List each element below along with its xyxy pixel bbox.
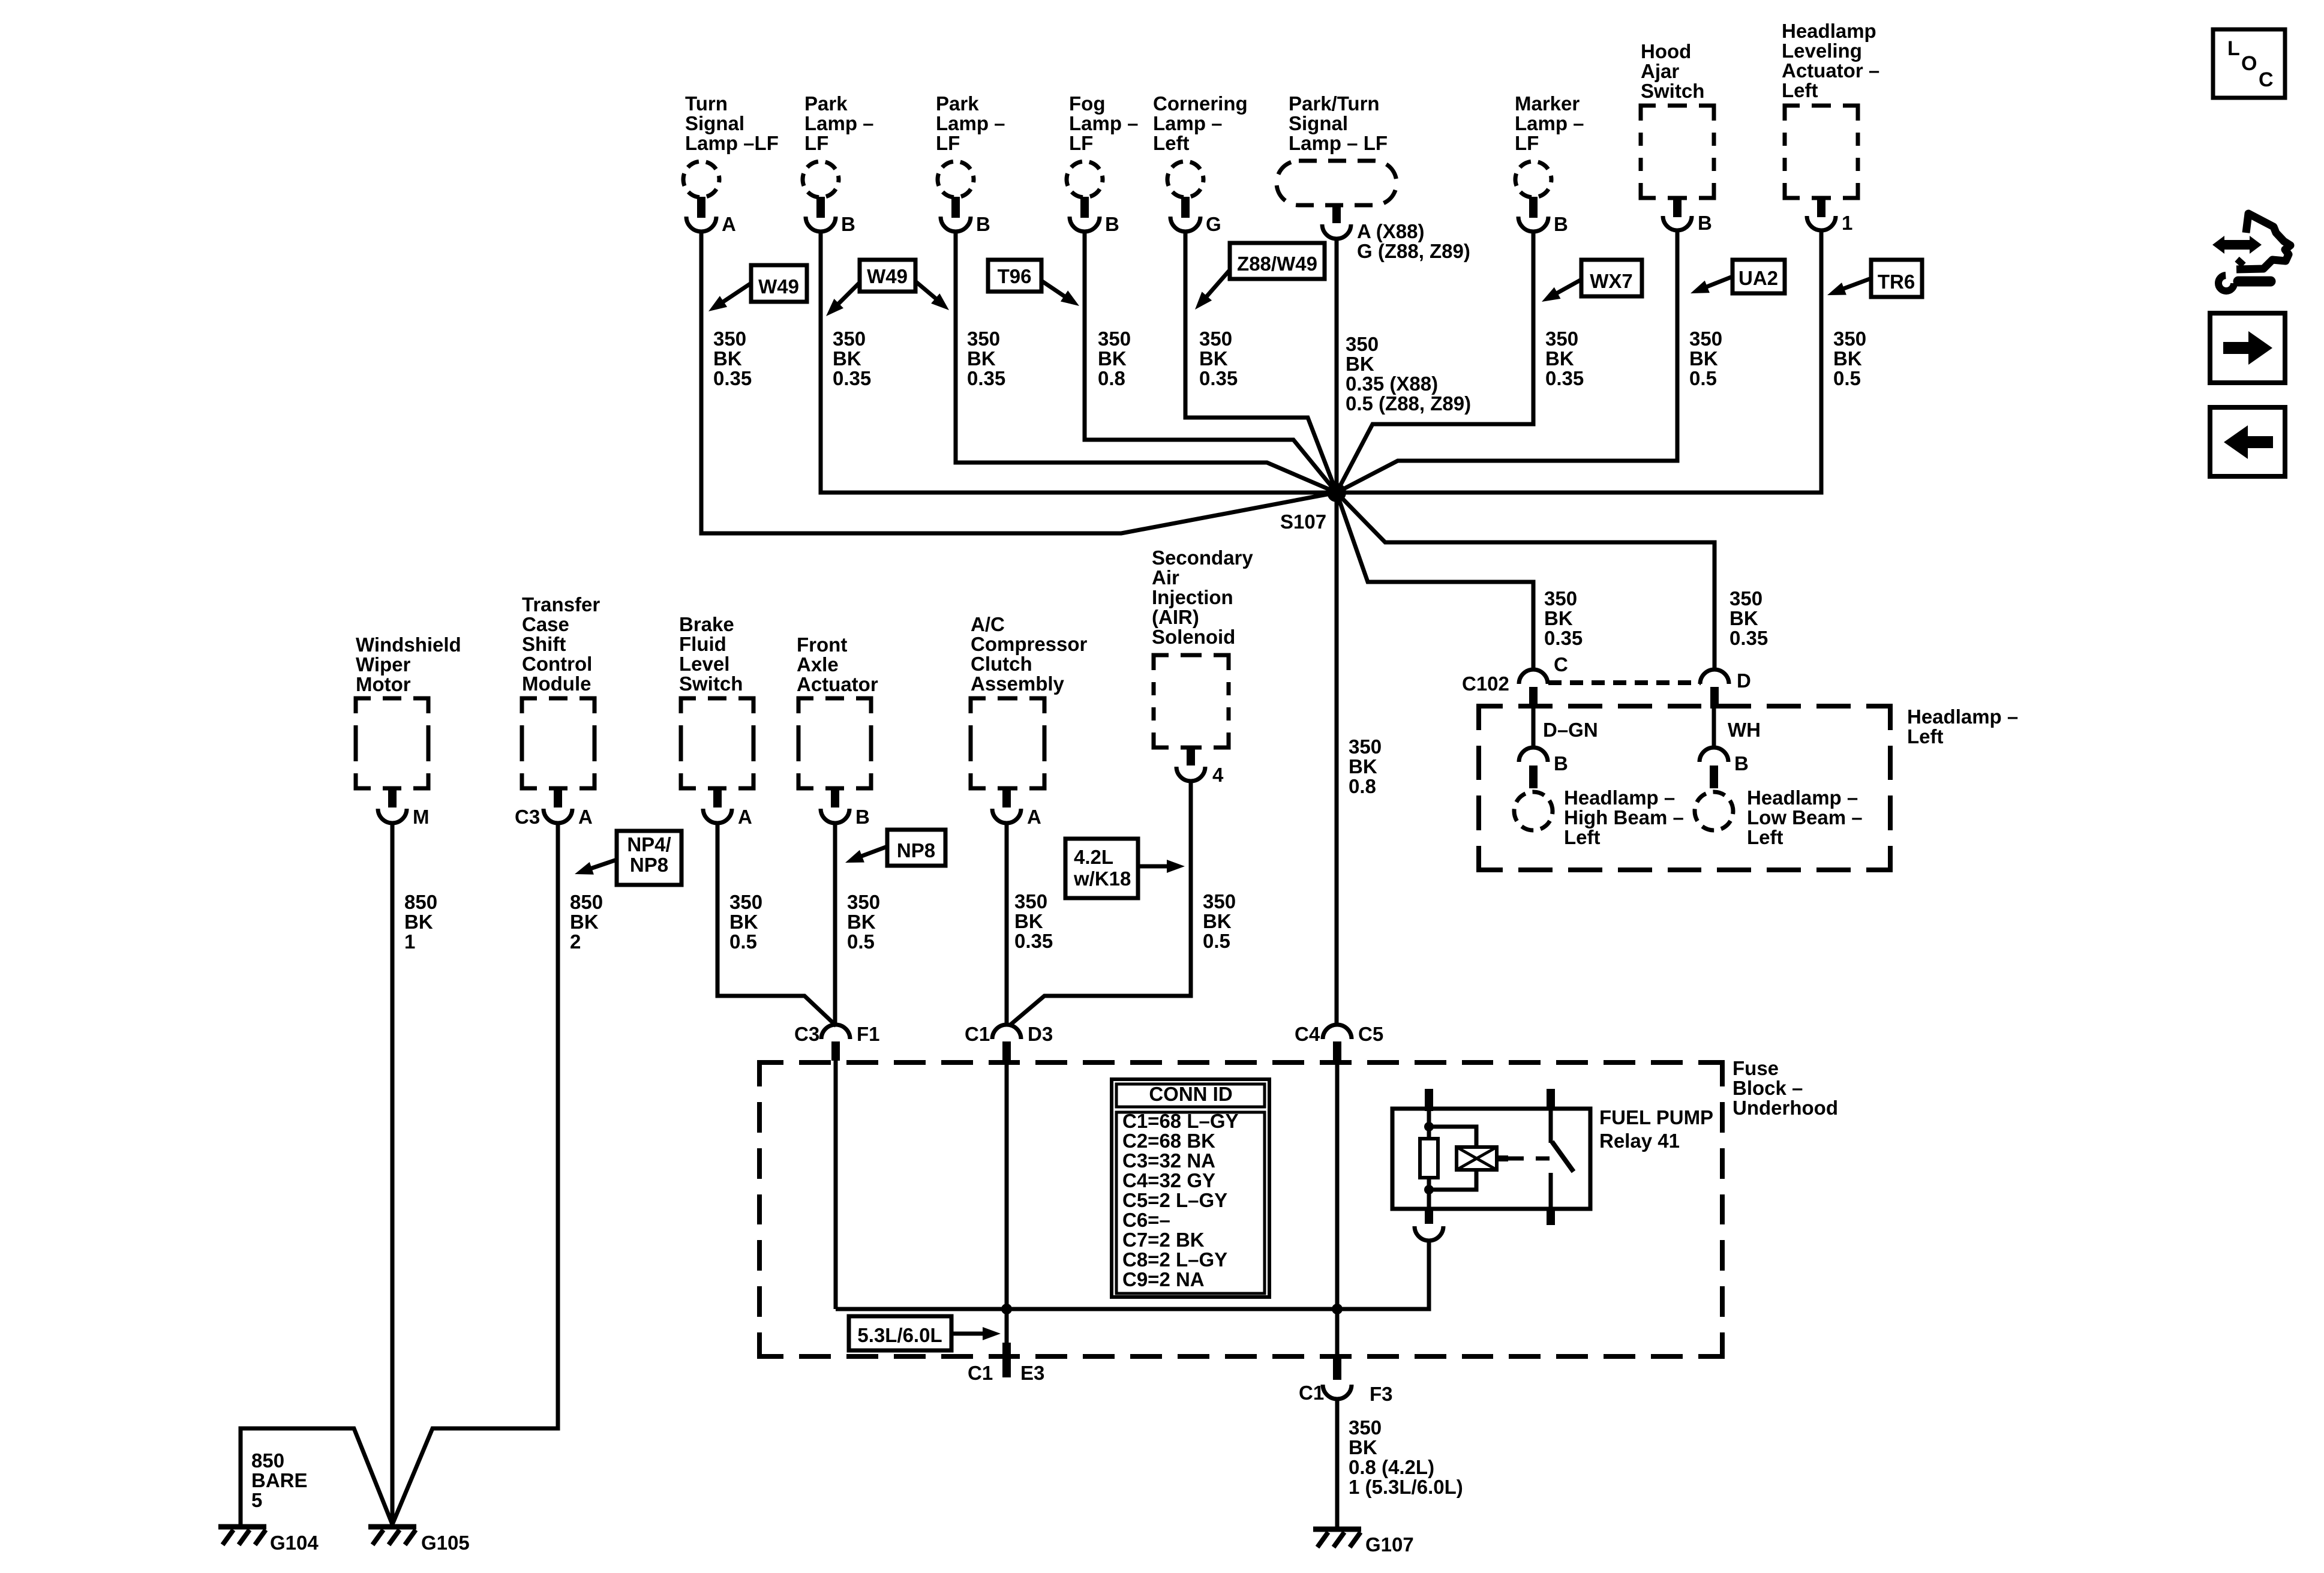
svg-text:LF: LF	[936, 132, 960, 154]
svg-text:850: 850	[404, 891, 437, 913]
wire label 350 BK 0.5 (axle)	[847, 891, 880, 953]
svg-text:B: B	[841, 213, 855, 235]
wire WH to low beam	[1714, 706, 1761, 749]
svg-text:350: 350	[833, 328, 866, 350]
svg-text:Left: Left	[1153, 132, 1190, 154]
svg-text:w/K18: w/K18	[1073, 867, 1131, 890]
svg-text:350: 350	[967, 328, 1000, 350]
svg-text:Left: Left	[1782, 79, 1818, 101]
svg-text:LF: LF	[1069, 132, 1093, 154]
component: Fog Lamp LF	[1067, 92, 1139, 235]
svg-text:350: 350	[1689, 328, 1722, 350]
svg-text:WX7: WX7	[1590, 270, 1633, 292]
wire relay to bus	[1427, 1241, 1431, 1309]
wire W11 S107 to C102 pin C	[1337, 493, 1533, 671]
svg-text:Hood: Hood	[1641, 40, 1691, 62]
svg-text:Headlamp –: Headlamp –	[1564, 786, 1675, 809]
svg-text:G (Z88, Z89): G (Z88, Z89)	[1357, 240, 1470, 262]
component: Turn Signal Lamp LF	[683, 92, 779, 235]
icon arrow left box	[2210, 407, 2285, 476]
svg-text:Switch: Switch	[679, 673, 743, 695]
component Secondary Air Injection (AIR) Solenoid	[1152, 547, 1253, 786]
svg-text:F1: F1	[857, 1023, 880, 1045]
connector C3/F1	[794, 1023, 880, 1061]
wire label 350 BK 0.5 (brake)	[729, 891, 762, 953]
connector pin B high beam	[1519, 748, 1568, 788]
svg-text:UA2: UA2	[1739, 267, 1778, 289]
svg-text:Left: Left	[1564, 826, 1601, 848]
svg-text:Solenoid: Solenoid	[1152, 626, 1235, 648]
svg-text:O: O	[2241, 52, 2257, 75]
component Transfer Case Shift Control Module	[515, 593, 600, 828]
svg-text:BARE: BARE	[251, 1469, 308, 1491]
svg-text:A: A	[722, 213, 736, 235]
svg-text:Z88/W49: Z88/W49	[1237, 253, 1317, 275]
svg-text:BK: BK	[713, 347, 742, 370]
svg-text:350: 350	[1014, 890, 1047, 912]
wire W2 park lamp to S107	[821, 230, 1337, 493]
svg-text:Ajar: Ajar	[1641, 60, 1679, 82]
svg-text:850: 850	[251, 1449, 284, 1472]
ground G105	[368, 1527, 470, 1554]
svg-text:D: D	[1737, 670, 1751, 692]
svg-text:Clutch: Clutch	[971, 653, 1032, 675]
svg-text:BK: BK	[1730, 607, 1758, 629]
svg-text:0.35: 0.35	[833, 367, 871, 389]
svg-text:LF: LF	[804, 132, 828, 154]
svg-text:C1: C1	[965, 1023, 990, 1045]
wire label 350 BK 0.35 (pin D)	[1730, 587, 1768, 649]
svg-text:350: 350	[1545, 328, 1578, 350]
svg-text:E3: E3	[1020, 1362, 1044, 1384]
component A/C Compressor Clutch Assembly	[971, 613, 1088, 828]
svg-text:W49: W49	[867, 265, 908, 287]
svg-text:Turn: Turn	[685, 92, 728, 115]
svg-text:F3: F3	[1370, 1383, 1393, 1405]
svg-text:G107: G107	[1365, 1533, 1414, 1556]
svg-text:BK: BK	[1203, 910, 1232, 932]
component: Marker Lamp LF	[1515, 92, 1584, 235]
svg-text:Fuse: Fuse	[1733, 1057, 1779, 1079]
option box T96	[988, 260, 1079, 306]
svg-text:0.5 (Z88, Z89): 0.5 (Z88, Z89)	[1346, 392, 1471, 415]
table CONN ID	[1112, 1079, 1269, 1297]
svg-text:350: 350	[713, 328, 746, 350]
svg-text:BK: BK	[1689, 347, 1718, 370]
svg-text:C4: C4	[1295, 1023, 1320, 1045]
wire label 350 BK 0.8 (C5 wire)	[1349, 736, 1382, 797]
svg-text:C2=68 BK: C2=68 BK	[1122, 1130, 1215, 1152]
svg-text:Underhood: Underhood	[1733, 1097, 1838, 1119]
svg-text:A: A	[738, 806, 752, 828]
svg-text:0.35: 0.35	[713, 367, 752, 389]
wire bare strap G105 to G104	[241, 1428, 392, 1524]
wire label 350 BK 0.8/1	[1349, 1416, 1463, 1498]
svg-text:C7=2 BK: C7=2 BK	[1122, 1229, 1205, 1251]
svg-text:Lamp – LF: Lamp – LF	[1289, 132, 1388, 154]
svg-text:(AIR): (AIR)	[1152, 606, 1199, 628]
svg-text:350: 350	[1098, 328, 1131, 350]
wire label 0.35 col3	[967, 328, 1005, 389]
relay FUEL PUMP Relay 41	[1392, 1089, 1590, 1225]
component: Headlamp Leveling Actuator Left	[1782, 20, 1879, 234]
wire label 350 BK 0.5 (AIR)	[1203, 890, 1236, 952]
svg-text:Marker: Marker	[1515, 92, 1580, 115]
svg-text:Park: Park	[936, 92, 979, 115]
svg-text:350: 350	[1349, 736, 1382, 758]
component: Park Lamp LF (1)	[803, 92, 874, 235]
svg-text:C3: C3	[515, 806, 540, 828]
svg-text:FUEL PUMP: FUEL PUMP	[1599, 1106, 1713, 1128]
svg-text:0.5: 0.5	[1689, 367, 1717, 389]
svg-text:Lamp –: Lamp –	[936, 112, 1005, 134]
svg-text:CONN ID: CONN ID	[1149, 1083, 1232, 1105]
svg-text:Headlamp: Headlamp	[1782, 20, 1876, 42]
option box NP4/NP8	[575, 831, 681, 885]
component: Hood Ajar Switch	[1641, 40, 1714, 234]
label FUEL PUMP Relay 41	[1599, 1106, 1713, 1152]
svg-text:Signal: Signal	[685, 112, 744, 134]
svg-text:Cornering: Cornering	[1153, 92, 1248, 115]
svg-text:BK: BK	[1014, 910, 1043, 932]
svg-text:C3: C3	[794, 1023, 819, 1045]
svg-text:Lamp –: Lamp –	[1515, 112, 1584, 134]
svg-text:0.35: 0.35	[1199, 367, 1238, 389]
svg-text:Lamp –: Lamp –	[1069, 112, 1139, 134]
svg-text:C3=32 NA: C3=32 NA	[1122, 1149, 1215, 1172]
svg-text:NP8: NP8	[630, 854, 668, 876]
svg-text:WH: WH	[1728, 719, 1761, 741]
lamp Headlamp Low Beam Left	[1695, 786, 1863, 848]
svg-text:Shift: Shift	[522, 633, 566, 655]
svg-text:C5: C5	[1358, 1023, 1383, 1045]
svg-text:350: 350	[1833, 328, 1866, 350]
svg-text:850: 850	[570, 891, 603, 913]
svg-text:0.5: 0.5	[1833, 367, 1861, 389]
svg-text:M: M	[413, 806, 430, 828]
svg-text:5.3L/6.0L: 5.3L/6.0L	[857, 1324, 942, 1346]
svg-text:C9=2 NA: C9=2 NA	[1122, 1268, 1205, 1290]
component Front Axle Actuator	[797, 634, 878, 828]
svg-text:C8=2 L–GY: C8=2 L–GY	[1122, 1248, 1227, 1271]
wire D-GN to high beam	[1533, 706, 1598, 749]
svg-text:Switch: Switch	[1641, 80, 1704, 102]
icon vehicle with wrench	[2212, 214, 2290, 291]
wire E3 branch	[1005, 1309, 1009, 1344]
svg-text:0.35: 0.35	[1545, 367, 1584, 389]
svg-text:S107: S107	[1280, 511, 1326, 533]
wire label 0.5 col8	[1689, 328, 1722, 389]
svg-text:0.35: 0.35	[1014, 930, 1053, 952]
svg-text:0.5: 0.5	[847, 930, 875, 953]
svg-text:BK: BK	[1346, 353, 1374, 375]
svg-text:TR6: TR6	[1878, 271, 1915, 293]
svg-text:Assembly: Assembly	[971, 673, 1065, 695]
svg-text:1: 1	[404, 930, 415, 953]
svg-text:0.35: 0.35	[1730, 627, 1768, 649]
wire label 0.5 col9	[1833, 328, 1866, 389]
svg-text:A: A	[1027, 806, 1041, 828]
connector C102 dashed line	[1548, 680, 1701, 685]
svg-text:0.35 (X88): 0.35 (X88)	[1346, 373, 1438, 395]
svg-text:Module: Module	[522, 673, 591, 695]
box Headlamp Left	[1479, 706, 1890, 870]
splice S107	[1280, 483, 1346, 533]
wire bus inside fuse block	[836, 1239, 1429, 1309]
svg-text:C5=2 L–GY: C5=2 L–GY	[1122, 1189, 1227, 1211]
svg-text:A/C: A/C	[971, 613, 1005, 635]
svg-text:Block –: Block –	[1733, 1077, 1803, 1099]
svg-text:BK: BK	[570, 911, 599, 933]
wire W10 S107 to C102 pin D	[1337, 493, 1715, 671]
svg-text:BK: BK	[404, 911, 433, 933]
svg-text:350: 350	[1544, 587, 1577, 610]
label Fuse Block Underhood	[1733, 1057, 1838, 1119]
junction dot D3/bus	[1001, 1304, 1012, 1314]
svg-text:0.8: 0.8	[1349, 775, 1376, 797]
label C102	[1462, 673, 1509, 695]
svg-text:Front: Front	[797, 634, 847, 656]
icon arrow right box	[2210, 313, 2285, 383]
svg-text:Windshield: Windshield	[356, 634, 461, 656]
wire C5 inside fuse block	[1335, 1061, 1340, 1356]
svg-text:Park/Turn: Park/Turn	[1289, 92, 1380, 115]
option box W49 a	[708, 265, 807, 311]
svg-text:B: B	[1734, 752, 1749, 775]
svg-text:1 (5.3L/6.0L): 1 (5.3L/6.0L)	[1349, 1476, 1463, 1498]
svg-text:Lamp –: Lamp –	[804, 112, 874, 134]
svg-text:BK: BK	[1199, 347, 1228, 370]
svg-text:C: C	[1554, 653, 1568, 676]
option box Z88/W49	[1195, 243, 1325, 310]
svg-text:350: 350	[729, 891, 762, 913]
svg-text:G104: G104	[270, 1532, 319, 1554]
wire label 850 BK 2	[570, 891, 603, 953]
svg-text:Actuator –: Actuator –	[1782, 59, 1879, 82]
svg-text:BK: BK	[1349, 1436, 1377, 1458]
svg-text:350: 350	[847, 891, 880, 913]
svg-text:Actuator: Actuator	[797, 673, 878, 695]
wire label 850 BK 1	[404, 891, 437, 953]
svg-text:Compressor: Compressor	[971, 633, 1088, 655]
wire W9 headlamp leveling to S107	[1337, 230, 1821, 493]
svg-text:0.35: 0.35	[1544, 627, 1583, 649]
svg-text:C1=68 L–GY: C1=68 L–GY	[1122, 1110, 1239, 1132]
svg-text:Park: Park	[804, 92, 848, 115]
lamp Headlamp High Beam Left	[1514, 786, 1684, 848]
svg-text:Injection: Injection	[1152, 586, 1233, 608]
svg-text:0.8: 0.8	[1098, 367, 1125, 389]
svg-text:High Beam –: High Beam –	[1564, 806, 1684, 828]
junction dot C5/bus	[1332, 1304, 1343, 1314]
connector C1/D3	[965, 1023, 1053, 1061]
wire label 0.8 col4	[1098, 328, 1131, 389]
connector pin B low beam	[1700, 748, 1749, 788]
wire D3 inside fuse block	[1005, 1061, 1009, 1309]
wire W5 cornering to S107	[1185, 230, 1337, 493]
wire label 0.5 (Z88, Z89) col6	[1346, 333, 1471, 415]
svg-text:Wiper: Wiper	[356, 653, 411, 676]
svg-text:BK: BK	[833, 347, 861, 370]
svg-text:G105: G105	[421, 1532, 470, 1554]
svg-text:Control: Control	[522, 653, 592, 675]
svg-text:Leveling: Leveling	[1782, 40, 1862, 62]
svg-text:A: A	[578, 806, 593, 828]
svg-text:L: L	[2227, 37, 2240, 60]
svg-text:Lamp –: Lamp –	[1153, 112, 1223, 134]
svg-text:C4=32 GY: C4=32 GY	[1122, 1169, 1215, 1191]
svg-text:BK: BK	[1349, 755, 1377, 778]
svg-text:Air: Air	[1152, 566, 1179, 589]
wire W6 park/turn down through S107 to C4	[1335, 238, 1339, 1026]
icon LOC box	[2213, 29, 2285, 98]
svg-text:C1: C1	[968, 1362, 993, 1384]
svg-text:B: B	[855, 806, 870, 828]
svg-text:350: 350	[1730, 587, 1762, 610]
svg-text:Case: Case	[522, 613, 569, 635]
wire label 0.35 col2	[833, 328, 871, 389]
svg-text:G: G	[1206, 213, 1221, 235]
option box UA2	[1691, 260, 1785, 293]
wire W1 turn signal to S107	[701, 230, 1337, 533]
svg-text:5: 5	[251, 1489, 262, 1511]
svg-text:Fluid: Fluid	[679, 633, 726, 655]
svg-text:C6=–: C6=–	[1122, 1209, 1170, 1231]
connector C4/C5	[1295, 1023, 1383, 1061]
option box 5.3L/6.0L	[849, 1316, 1001, 1350]
box Fuse Block Underhood	[759, 1062, 1722, 1356]
connector C1/E3	[968, 1343, 1044, 1384]
wire label 850 BARE 5	[251, 1449, 308, 1511]
wire W7 marker to S107	[1337, 230, 1533, 493]
wire wiper motor to G105	[391, 823, 395, 1524]
wire label 350 BK 0.35 (pin C)	[1544, 587, 1583, 649]
svg-text:Lamp –LF: Lamp –LF	[685, 132, 779, 154]
svg-text:1: 1	[1842, 212, 1852, 234]
svg-text:Level: Level	[679, 653, 729, 675]
option box TR6	[1827, 260, 1922, 297]
svg-text:A (X88): A (X88)	[1357, 220, 1424, 242]
wire F3 to G107	[1335, 1399, 1340, 1527]
option box W49 b	[826, 260, 949, 316]
svg-text:350: 350	[1349, 1416, 1382, 1439]
svg-text:Signal: Signal	[1289, 112, 1348, 134]
svg-text:0.5: 0.5	[729, 930, 757, 953]
svg-text:LF: LF	[1515, 132, 1539, 154]
connector C102 pin C	[1519, 653, 1568, 709]
svg-text:350: 350	[1199, 328, 1232, 350]
component Brake Fluid Level Switch	[679, 613, 753, 828]
svg-text:0.5: 0.5	[1203, 930, 1230, 952]
option box WX7	[1542, 260, 1642, 302]
svg-text:Fog: Fog	[1069, 92, 1105, 115]
svg-text:B: B	[1554, 213, 1568, 235]
component: Park/Turn Signal Lamp LF	[1277, 92, 1470, 262]
wire brake fluid to C3/F1	[717, 823, 836, 1026]
svg-text:Left: Left	[1907, 725, 1944, 748]
wire W4 fog lamp to S107	[1085, 230, 1337, 493]
component: Park Lamp LF (2)	[936, 92, 1005, 235]
wire label 0.35 col7	[1545, 328, 1584, 389]
svg-text:B: B	[1554, 752, 1568, 775]
component: Cornering Lamp Left	[1153, 92, 1248, 235]
svg-text:T96: T96	[998, 265, 1032, 287]
connector C1/F3	[1299, 1356, 1393, 1405]
svg-text:NP8: NP8	[897, 839, 935, 861]
wire label 350 BK 0.35 (A/C)	[1014, 890, 1053, 952]
wire AIR solenoid to C1/D3	[1009, 780, 1191, 1026]
wire A/C compressor to C1/D3	[1005, 823, 1009, 1026]
svg-text:2: 2	[570, 930, 581, 953]
wire label 0.35 col5	[1199, 328, 1238, 389]
svg-text:Motor: Motor	[356, 673, 411, 695]
svg-text:Headlamp –: Headlamp –	[1747, 786, 1858, 809]
svg-text:C102: C102	[1462, 673, 1509, 695]
svg-text:Axle: Axle	[797, 653, 839, 676]
svg-text:Low Beam –: Low Beam –	[1747, 806, 1863, 828]
svg-text:D–GN: D–GN	[1543, 719, 1598, 741]
connector C102 pin D	[1700, 670, 1751, 709]
connector relay ground pin	[1415, 1226, 1443, 1241]
svg-text:BK: BK	[1098, 347, 1127, 370]
svg-text:W49: W49	[758, 275, 799, 298]
svg-text:BK: BK	[1544, 607, 1573, 629]
svg-text:350: 350	[1346, 333, 1379, 355]
ground G107	[1313, 1529, 1414, 1556]
wire F1 inside fuse block	[834, 1061, 838, 1309]
svg-text:B: B	[1698, 212, 1712, 234]
wire W3 park lamp to S107	[956, 230, 1337, 493]
svg-text:0.8 (4.2L): 0.8 (4.2L)	[1349, 1456, 1434, 1478]
svg-text:BK: BK	[967, 347, 996, 370]
svg-text:BK: BK	[729, 911, 758, 933]
option box NP8	[845, 830, 945, 866]
ground G104	[218, 1527, 319, 1554]
svg-text:C1: C1	[1299, 1382, 1324, 1404]
svg-text:NP4/: NP4/	[627, 833, 671, 855]
wire transfer case to G105	[392, 823, 558, 1524]
svg-text:Headlamp –: Headlamp –	[1907, 706, 2018, 728]
svg-text:C: C	[2259, 68, 2274, 91]
svg-text:Transfer: Transfer	[522, 593, 600, 616]
svg-text:0.35: 0.35	[967, 367, 1005, 389]
svg-text:350: 350	[1203, 890, 1236, 912]
svg-text:B: B	[1105, 213, 1119, 235]
svg-text:Left: Left	[1747, 826, 1783, 848]
wire front axle to C3/F1	[833, 823, 837, 1026]
wire W8 hood ajar to S107	[1337, 230, 1677, 493]
svg-text:D3: D3	[1028, 1023, 1053, 1045]
svg-text:4: 4	[1212, 764, 1224, 786]
option box 4.2L w/K18	[1065, 839, 1185, 898]
svg-text:B: B	[976, 213, 990, 235]
label Headlamp Left	[1907, 706, 2018, 748]
wire label 0.35 col1	[713, 328, 752, 389]
svg-text:BK: BK	[1545, 347, 1574, 370]
svg-text:Brake: Brake	[679, 613, 734, 635]
svg-text:Secondary: Secondary	[1152, 547, 1253, 569]
svg-text:4.2L: 4.2L	[1074, 846, 1113, 868]
svg-text:Relay 41: Relay 41	[1599, 1130, 1680, 1152]
svg-text:BK: BK	[1833, 347, 1862, 370]
component Windshield Wiper Motor	[356, 634, 461, 828]
svg-text:BK: BK	[847, 911, 876, 933]
